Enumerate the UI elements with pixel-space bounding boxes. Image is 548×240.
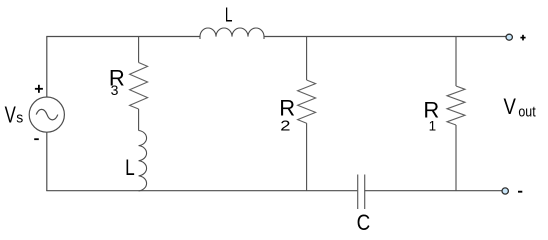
capacitor C bbox=[358, 175, 365, 210]
svg-text:L: L bbox=[225, 3, 233, 26]
label - (output) bbox=[518, 191, 522, 193]
wire: top rail from source to inductor L bbox=[46, 36, 200, 38]
wire: left rail, top wire to source top bbox=[46, 37, 48, 98]
svg-text:V: V bbox=[504, 94, 517, 119]
svg-text:3: 3 bbox=[111, 82, 119, 98]
label Vs bbox=[5, 101, 24, 127]
svg-text:1: 1 bbox=[429, 118, 437, 133]
label + (output) bbox=[520, 35, 525, 41]
svg-text:s: s bbox=[16, 111, 23, 127]
polarity + of source bbox=[35, 85, 43, 93]
inductor L2 (vertical, series with R3) bbox=[139, 131, 147, 191]
svg-text:C: C bbox=[357, 210, 371, 235]
label R2 bbox=[279, 96, 295, 135]
label R1 bbox=[423, 98, 439, 134]
svg-text:V: V bbox=[5, 101, 16, 127]
resistor R1 bbox=[447, 37, 465, 192]
inductor L (series, top rail) bbox=[200, 28, 264, 39]
output terminal - (bottom right) bbox=[502, 188, 508, 194]
resistor R3 bbox=[130, 37, 148, 131]
voltage source VS bbox=[29, 97, 64, 132]
label R3 bbox=[109, 66, 125, 99]
wire: bottom rail from capacitor to - terminal bbox=[365, 190, 503, 192]
svg-text:out: out bbox=[518, 104, 535, 120]
wire: left rail, source bottom to bottom rail bbox=[46, 132, 48, 191]
output terminal + (top right) bbox=[506, 34, 512, 40]
resistor R2 bbox=[298, 37, 316, 192]
label Vout bbox=[504, 94, 536, 120]
svg-text:L: L bbox=[125, 155, 135, 180]
svg-text:2: 2 bbox=[280, 117, 290, 134]
wire: bottom rail from source to capacitor bbox=[46, 190, 357, 192]
polarity - of source bbox=[34, 138, 39, 140]
wire: top rail from inductor to + terminal bbox=[264, 36, 506, 38]
